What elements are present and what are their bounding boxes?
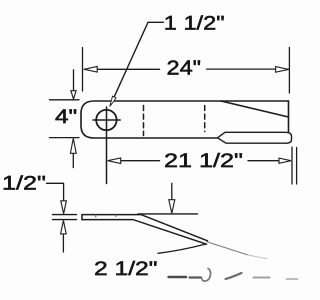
- svg-text:1/2": 1/2": [2, 173, 46, 194]
- svg-text:2 1/2": 2 1/2": [94, 259, 158, 280]
- svg-text:4": 4": [55, 107, 77, 128]
- svg-text:1 1/2": 1 1/2": [164, 13, 225, 34]
- svg-text:24": 24": [167, 58, 202, 80]
- svg-text:21 1/2": 21 1/2": [164, 151, 243, 172]
